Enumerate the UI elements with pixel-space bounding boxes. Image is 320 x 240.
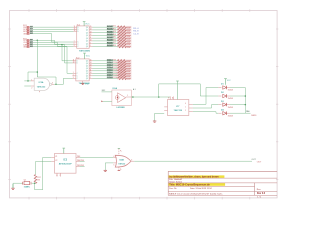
wire net ROW6: [93, 40, 118, 42]
junction: [245, 95, 247, 97]
net label COL3: [107, 64, 113, 66]
wire top to diodes: [159, 84, 201, 97]
wire PB5 stub: [80, 166, 85, 168]
wire: [33, 47, 73, 74]
wire: [37, 40, 73, 44]
junction: [34, 182, 36, 184]
resistor R13 220: [113, 69, 131, 73]
NAND gate IC5A: [31, 78, 54, 93]
wire gate output to IC2: [54, 78, 72, 84]
net label COL1: [107, 59, 113, 61]
wire IC7 to D4: [193, 112, 218, 114]
wire net ROW8: [93, 45, 118, 47]
pin arrow: [101, 101, 103, 103]
junction: [245, 104, 247, 106]
wire IC7 gnd: [155, 113, 165, 121]
junction: [158, 96, 160, 98]
wire net ROW5: [93, 37, 118, 39]
wire net ROW3: [93, 32, 118, 34]
svg-text:1: 1: [127, 95, 128, 97]
VCC supply IC1: [83, 22, 90, 26]
ground GND IC2: [81, 81, 89, 85]
wire net ROW2: [93, 29, 118, 31]
svg-text:R1..4: R1..4: [133, 28, 139, 30]
IC U2 74HC595: [73, 57, 93, 85]
wire net COL2: [93, 62, 118, 64]
wire net COL3: [93, 65, 118, 67]
wire gnd to crystal: [13, 182, 23, 185]
wire net COL4: [93, 67, 118, 69]
wire D3 out: [230, 104, 245, 106]
power pin IC5B VCC: [118, 148, 122, 155]
svg-text:VCC: VCC: [85, 24, 90, 26]
svg-text:VCC: VCC: [86, 55, 91, 57]
net label ROW5: [107, 37, 113, 39]
wire feedback loop: [28, 72, 37, 81]
wire opamp out: [131, 96, 170, 98]
junction: [37, 71, 39, 73]
diode D2 1N4148: [218, 92, 233, 100]
wire net COL8: [93, 77, 118, 79]
wire gate input A: [24, 80, 31, 82]
svg-text:Rev 0.6: Rev 0.6: [257, 193, 266, 195]
wire R17 top: [35, 162, 37, 175]
svg-text:6: 6: [131, 160, 132, 162]
wire net ROW7: [93, 43, 118, 45]
connector SV1: [23, 25, 34, 35]
svg-text:COL7: COL7: [107, 75, 114, 77]
wire: [33, 34, 73, 42]
junction: [132, 96, 134, 98]
connector SV2: [23, 38, 34, 48]
svg-text:P+: P+: [120, 151, 122, 153]
junction: [55, 84, 57, 86]
wire: [62, 45, 73, 63]
resistor R12 220: [113, 67, 131, 71]
wire vertical from SV2: [36, 40, 38, 77]
wire vcc drop: [225, 84, 227, 85]
svg-text:COL3: COL3: [107, 65, 114, 67]
svg-text:3: 3: [52, 83, 53, 85]
svg-text:VCC: VCC: [227, 80, 232, 82]
diode D3 1N4148: [218, 101, 233, 109]
svg-text:X1: X1: [55, 156, 57, 158]
op-amp IC6 LM358: [112, 87, 131, 109]
svg-text:PB5: PB5: [80, 165, 84, 167]
resistor R6 220: [113, 39, 131, 43]
resistor R11 220: [113, 64, 131, 68]
svg-text:COL1: COL1: [107, 60, 114, 62]
resistor R14 220: [113, 72, 131, 76]
wire IC7 to D1: [193, 88, 218, 105]
net label ROW1: [107, 26, 113, 28]
svg-text:4: 4: [113, 156, 114, 158]
IC U1 74HC595: [73, 24, 92, 52]
OR gate IC5B: [113, 155, 134, 167]
net label COL8: [107, 77, 113, 79]
wire opamp in+: [102, 91, 112, 93]
net label ROW6: [107, 39, 113, 41]
resistor R5 220: [113, 37, 131, 41]
wire OUT long: [134, 160, 252, 162]
wire net COL7: [93, 75, 118, 77]
net label COL6: [107, 72, 113, 74]
diode D4 1N4148: [218, 108, 233, 117]
resistor R17: [34, 175, 40, 184]
net label COL4: [107, 67, 113, 69]
wire net ROW1: [93, 26, 118, 28]
crystal Q1: [23, 180, 31, 189]
wire PB3 to gate: [80, 156, 114, 158]
ground GND3: [153, 121, 156, 122]
resistor R1 220: [113, 26, 131, 30]
wire diode bus: [230, 88, 245, 114]
svg-text:1M: 1M: [37, 180, 40, 182]
wire feedback: [37, 72, 56, 77]
svg-text:GND: GND: [85, 83, 90, 85]
net label COL2: [107, 62, 113, 64]
wire D2 out: [230, 95, 245, 97]
resistor R4 220: [113, 34, 131, 38]
svg-text:GND: GND: [23, 47, 28, 49]
wire crystal to R17: [32, 182, 35, 184]
net label ROW8: [107, 45, 113, 47]
resistor R7 220: [113, 42, 131, 46]
VCC supply IC2: [83, 53, 90, 59]
ground GND2: [104, 170, 107, 171]
power pin IC5B GND: [118, 167, 123, 171]
net label COL5: [107, 69, 113, 71]
wire: [33, 28, 73, 30]
VCC supply diodes: [224, 79, 231, 84]
svg-text:COL6: COL6: [107, 72, 114, 74]
net label ROW2: [107, 28, 113, 30]
svg-text:16MHz: 16MHz: [24, 187, 30, 189]
VCC supply IC7: [176, 81, 179, 100]
wire to PAD: [245, 112, 250, 114]
wire net ROW4: [93, 34, 118, 36]
wire PB4 stub: [80, 161, 85, 163]
resistor R16 220: [113, 77, 131, 81]
svg-text:Rev:: Rev:: [257, 189, 262, 191]
wire IC7 to D3: [193, 105, 218, 108]
svg-text:C1..8: C1..8: [133, 33, 139, 35]
net label COL7: [107, 74, 113, 76]
wire net COL1: [93, 60, 118, 62]
diode D1 1N4148: [218, 84, 233, 92]
resistor R10 220: [113, 62, 131, 66]
resistor R3 220: [113, 31, 131, 35]
wire: [33, 26, 73, 28]
wire: [33, 42, 73, 46]
wire XTAL1: [43, 157, 52, 189]
svg-text:1: 1: [31, 79, 32, 81]
net label ROW4: [107, 34, 113, 36]
wire opamp in-: [103, 100, 112, 102]
svg-text:220: 220: [127, 79, 130, 81]
wire R17 bottom: [35, 183, 43, 190]
svg-text:5: 5: [113, 165, 114, 167]
junction: [27, 80, 29, 82]
svg-text:R5..8: R5..8: [133, 31, 139, 33]
svg-text:220: 220: [127, 47, 130, 49]
svg-text:GND: GND: [23, 33, 28, 35]
svg-text:Title: MSC10-CrystalSequencer.: Title: MSC10-CrystalSequencer.de: [169, 184, 210, 187]
svg-text:COL2: COL2: [107, 62, 114, 64]
wire gate B to gnd: [105, 163, 113, 170]
wire gate input B: [24, 85, 31, 87]
net label ROW3: [107, 31, 113, 33]
VCC supply MCU: [63, 148, 66, 153]
resistor R15 220: [113, 74, 131, 78]
svg-text:Q1: Q1: [24, 180, 27, 182]
wire XTAL2: [36, 161, 52, 163]
svg-text:COL8: COL8: [107, 77, 114, 79]
svg-text:X2: X2: [55, 160, 57, 162]
wire net COL5: [93, 70, 118, 72]
wire to D2: [200, 84, 218, 96]
svg-text:R17: R17: [37, 177, 40, 179]
MCU IC3 AT90S2313: [51, 154, 80, 178]
svg-text:2: 2: [31, 88, 32, 90]
resistor R8 220: [113, 45, 131, 49]
wire feedback drop: [55, 77, 57, 84]
junction: [37, 40, 39, 42]
svg-text:OUT: OUT: [257, 161, 262, 163]
net label ROW7: [107, 42, 113, 44]
svg-text:COL5: COL5: [107, 70, 114, 72]
IC7 decoder 74HC139: [164, 96, 193, 115]
wire net COL6: [93, 72, 118, 74]
wire: [33, 30, 73, 32]
wire: [33, 45, 73, 61]
resistor R2 220: [113, 28, 131, 32]
resistor R9 220: [113, 59, 131, 63]
wire: [33, 39, 37, 41]
ground GND1: [11, 184, 14, 189]
svg-text:LM358N: LM358N: [117, 107, 126, 109]
junction: [61, 44, 63, 46]
